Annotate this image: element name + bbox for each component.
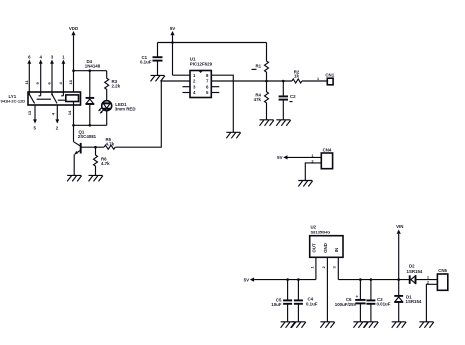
relay LY1 <box>1 92 81 105</box>
svg-text:941H-2C-12D: 941H-2C-12D <box>1 99 26 104</box>
regulator U2 <box>310 224 343 257</box>
svg-text:GND: GND <box>323 243 328 253</box>
wire collector net <box>72 124 107 127</box>
relay coil pin 16 <box>68 79 73 84</box>
relay bottom pin 13 <box>27 105 37 130</box>
svg-text:0.1uF: 0.1uF <box>140 60 152 65</box>
connector CN1 <box>317 73 335 85</box>
relay top pin 9 <box>35 54 42 92</box>
wire U1 pin6 stub <box>211 86 219 88</box>
svg-text:4.7k: 4.7k <box>101 161 110 166</box>
svg-text:PIC12F629: PIC12F629 <box>190 61 213 66</box>
ground (D1) <box>392 322 406 328</box>
node VIN <box>396 224 403 280</box>
wire VDD rail to D4/R3 <box>72 69 107 72</box>
wire Q1 base <box>81 146 104 149</box>
LED LED1 <box>98 101 135 126</box>
capacitor C6 <box>335 280 366 322</box>
diode D2 <box>407 264 438 284</box>
relay top pin 11 <box>24 54 31 92</box>
svg-text:5V: 5V <box>244 277 249 282</box>
resistor R2 <box>292 69 302 83</box>
relay top pin 6 <box>47 54 54 92</box>
svg-text:13: 13 <box>27 110 32 115</box>
relay fixed contact pin 9 <box>39 92 41 96</box>
capacitor C1 <box>140 43 163 76</box>
ground (U2 GND) <box>320 322 334 328</box>
svg-text:R1: R1 <box>256 64 262 69</box>
ground (C5) <box>281 322 295 328</box>
resistor R1 <box>252 43 269 82</box>
wire U1 pin4 stub <box>182 92 190 94</box>
wire CN5 pin2 to ground <box>426 284 437 322</box>
relay coil pin 14 wire <box>67 105 74 125</box>
wire U1 pin8 to ground <box>211 75 233 132</box>
resistor R4 <box>254 81 269 120</box>
wire U1 pin5 stub <box>211 92 219 94</box>
wire U1 pin3 stub <box>182 86 190 88</box>
connector CN4 <box>311 148 332 169</box>
svg-text:5V: 5V <box>277 155 282 160</box>
ground (C1) <box>151 75 165 81</box>
op-amp U1 (PIC12F629) <box>190 57 213 98</box>
svg-text:1SR154: 1SR154 <box>406 299 422 304</box>
wire U2 OUT pin <box>309 257 316 279</box>
wire U2 GND pin <box>321 257 328 322</box>
relay top pin 4 <box>58 54 65 92</box>
relay contact arm 2 <box>51 92 57 103</box>
relay bottom pin 8 <box>50 105 59 130</box>
wire R2 to CN1 <box>302 80 327 82</box>
svg-text:CN1: CN1 <box>325 73 334 78</box>
node VDD <box>69 26 78 92</box>
svg-text:U2: U2 <box>311 224 317 229</box>
resistor R5 <box>104 137 115 149</box>
wire U1 pin7 net <box>211 80 292 83</box>
capacitor C5 <box>271 280 292 322</box>
wire VIN bus right <box>338 278 409 281</box>
svg-text:CN4: CN4 <box>323 148 332 153</box>
capacitor C3 <box>366 280 390 322</box>
svg-text:D2: D2 <box>409 264 415 269</box>
svg-text:IN: IN <box>334 248 339 252</box>
diode D1 <box>394 280 422 322</box>
diode D4 <box>85 59 101 125</box>
relay contact arm 1 <box>28 92 34 103</box>
ground (U1 pin8) <box>226 132 240 138</box>
svg-text:0.01uF: 0.01uF <box>377 302 391 307</box>
ground (C3) <box>364 322 378 328</box>
wire 5V rail <box>158 41 267 44</box>
svg-text:100uF/25V: 100uF/25V <box>335 302 357 307</box>
svg-text:14: 14 <box>67 110 72 115</box>
svg-text:3mm RED: 3mm RED <box>115 106 136 111</box>
wire 5V to U1 pin1 <box>173 74 191 76</box>
svg-text:47k: 47k <box>254 97 262 102</box>
wire R5 to U1 pin2 <box>115 81 190 147</box>
svg-text:1N4148: 1N4148 <box>85 64 101 69</box>
connector CN5 <box>427 268 448 290</box>
wire CN4 pin2 to ground <box>305 163 321 181</box>
svg-text:+: + <box>356 294 359 299</box>
ground (CN4) <box>298 181 312 187</box>
ground (R6) <box>89 175 103 181</box>
svg-text:OUT: OUT <box>311 243 316 253</box>
relay fixed contact pin 4 <box>61 92 63 96</box>
ground (CN5 pin2) <box>419 322 433 328</box>
svg-text:1k: 1k <box>294 74 299 79</box>
wire U2 IN pin <box>332 257 339 279</box>
svg-text:S81350HG: S81350HG <box>311 230 331 235</box>
node 5V (CN4) <box>277 155 321 160</box>
svg-text:VDD: VDD <box>69 26 78 31</box>
ground (C2) <box>276 120 290 126</box>
svg-text:16: 16 <box>68 79 73 84</box>
svg-text:4.7k: 4.7k <box>106 141 115 146</box>
node 5V (bottom) <box>244 277 254 282</box>
ground (C6) <box>353 322 367 328</box>
ground (C4) <box>291 322 305 328</box>
capacitor C2 <box>279 81 297 120</box>
ground (Q1 emitter) <box>67 175 81 181</box>
svg-text:2SC4081: 2SC4081 <box>78 134 97 139</box>
relay coil <box>66 95 79 105</box>
capacitor C4 <box>294 280 318 322</box>
svg-text:C2: C2 <box>290 94 296 99</box>
transistor Q1 <box>74 125 97 175</box>
svg-text:0.1uF: 0.1uF <box>306 302 318 307</box>
svg-text:CN5: CN5 <box>438 268 447 273</box>
wire 5V bus left <box>254 278 316 281</box>
svg-text:10uF: 10uF <box>271 302 282 307</box>
svg-text:5V: 5V <box>170 26 175 31</box>
svg-text:2.2k: 2.2k <box>112 84 121 89</box>
resistor R6 <box>94 147 111 175</box>
svg-text:VIN: VIN <box>396 224 403 229</box>
svg-text:1SR154: 1SR154 <box>407 269 423 274</box>
relay link bar <box>37 99 66 100</box>
node 5V (top) <box>170 26 175 75</box>
resistor R3 <box>105 71 121 101</box>
ground (R4) <box>260 120 274 126</box>
